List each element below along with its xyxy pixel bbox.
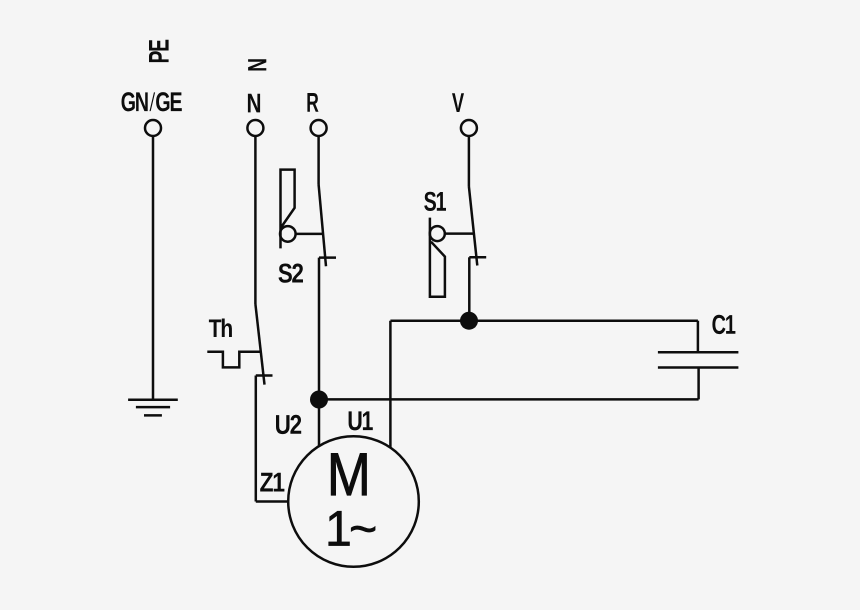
capacitor C1 plates [658,351,739,354]
terminal R [311,120,327,136]
label R [307,93,318,112]
terminal V [461,120,477,136]
node junction top rail [460,312,478,330]
wire R vertical [317,136,320,185]
switch S2 link [296,233,323,236]
label S1 [424,192,446,211]
label S2 [279,264,304,283]
switch Th blade [255,304,264,385]
motor label 1~ [329,511,375,545]
label U2 [276,415,301,434]
wire Z1 horizontal [256,500,289,503]
wire PE vertical [152,136,155,400]
label GN/GE [122,92,182,111]
ground [128,400,178,416]
wire below Th [255,376,258,502]
label Th [209,319,232,338]
switch S1 flag actuator [430,218,445,297]
wire below S1 [468,257,471,320]
motor M1 circle [288,436,419,567]
node junction bottom rail [310,391,328,409]
label U1 [349,411,373,430]
switch S1 circle [430,226,445,241]
switch S1 contact tick [469,256,486,259]
label V [452,93,464,112]
motor label M [331,453,366,495]
wire bottom rail [319,398,699,401]
label N (rotated) [248,59,266,70]
switch S2 contact tick [319,256,336,259]
label PE (rotated) [149,40,169,62]
switch S2 circle [280,226,296,242]
switch Th contact tick [256,374,273,377]
capacitor C1 top lead [697,321,700,353]
switch S1 link [445,232,474,235]
capacitor C1 bottom lead [697,368,700,400]
wire V vertical [468,136,471,187]
terminal N [247,120,263,136]
wire N vertical [254,136,257,304]
label C1 [712,315,735,334]
switch S2 blade [319,185,326,267]
wire top rail [390,319,698,322]
wire U2 vertical [318,400,321,446]
label N [248,94,260,113]
terminal GN/GE [145,120,161,136]
label Z1 [260,473,284,492]
switch S1 blade [469,187,477,266]
switch S2 flag actuator [280,170,294,249]
wire U1 vertical [389,321,392,448]
wire below S2 [318,258,321,400]
thermal element Th [207,352,261,368]
